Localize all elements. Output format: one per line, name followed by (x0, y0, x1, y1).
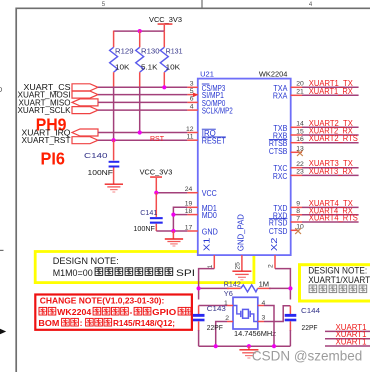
svg-text:MD0: MD0 (202, 211, 217, 220)
svg-text:VCC_3V3: VCC_3V3 (140, 168, 173, 177)
right pin names (269, 84, 288, 236)
svg-text:1M: 1M (259, 280, 270, 289)
svg-text:11: 11 (186, 134, 193, 141)
svg-text:SCLK/MP2: SCLK/MP2 (202, 107, 233, 116)
svg-text:CSDN @szembed: CSDN @szembed (252, 348, 362, 363)
svg-text:12: 12 (186, 126, 194, 133)
svg-text:BOM: BOM (38, 318, 59, 328)
svg-text:R145/R148/Q12;: R145/R148/Q12; (113, 318, 175, 328)
border arrow marker (0, 329, 6, 334)
svg-text:GND_PAD: GND_PAD (237, 214, 246, 251)
bottom pin stub X1 (213, 255, 215, 269)
svg-text:M1M0=00: M1M0=00 (53, 268, 93, 278)
no-connect X pin13 (297, 150, 303, 156)
wire XUART2_RX (302, 134, 359, 136)
node junction GND wire (171, 229, 175, 233)
svg-text:XUART_RST: XUART_RST (22, 135, 71, 145)
crystal pin2 stub (227, 321, 233, 323)
svg-text:6: 6 (190, 96, 194, 103)
svg-text:WK2204: WK2204 (57, 307, 91, 317)
right pin stubs (291, 87, 302, 230)
wire XUART_SCLK (98, 109, 187, 111)
svg-text:100NF: 100NF (88, 168, 114, 177)
node junction rail right (272, 344, 276, 348)
wire XUART3_RX (302, 174, 359, 176)
resistor R131 (160, 31, 182, 87)
node junction RST/R129/C140 (112, 138, 116, 142)
svg-text:RESET: RESET (202, 137, 226, 146)
resistor R142 (199, 280, 291, 292)
svg-text:VCC_3V3: VCC_3V3 (149, 15, 182, 24)
left pin numbers (185, 81, 194, 232)
wire XUART1 c (325, 345, 370, 347)
svg-text::: : (80, 318, 83, 328)
svg-text:5: 5 (190, 88, 194, 95)
svg-text:GND: GND (202, 228, 218, 237)
wire XUART4_RX (302, 214, 359, 216)
crystal pin3 stub (258, 321, 264, 323)
svg-text:RXC: RXC (273, 172, 288, 181)
crystal Y6 (224, 289, 277, 338)
port XUART_IRQ (22, 127, 99, 137)
svg-text:C140: C140 (84, 151, 108, 160)
svg-text:RXA: RXA (273, 92, 288, 101)
wire top rail (114, 30, 165, 32)
svg-text:C143: C143 (207, 304, 226, 313)
svg-text:X2: X2 (270, 237, 279, 251)
svg-text:3: 3 (262, 315, 266, 322)
wire X2 to crystal column (275, 269, 290, 300)
svg-text:10K: 10K (166, 63, 181, 72)
svg-text:R129: R129 (115, 47, 134, 56)
svg-text:CTSB: CTSB (269, 147, 288, 156)
wire XUART3_TX (302, 167, 359, 169)
svg-text:7: 7 (296, 215, 300, 222)
svg-text:100NF: 100NF (133, 224, 155, 233)
svg-text:XUART1: XUART1 (336, 338, 367, 347)
svg-text:14.7456MHz: 14.7456MHz (234, 329, 276, 338)
svg-text:22PF: 22PF (302, 323, 319, 332)
svg-text:C144: C144 (301, 306, 320, 315)
capacitor C144 (285, 306, 320, 346)
svg-text:5.1K: 5.1K (141, 63, 158, 72)
svg-text:21: 21 (296, 89, 304, 96)
svg-text:XUART2_RTS: XUART2_RTS (309, 134, 358, 143)
right pin numbers (296, 81, 304, 231)
node junction R142 right (288, 286, 292, 290)
bottom pin names X1 GND_PAD X2 (203, 214, 280, 251)
svg-text:X1: X1 (203, 237, 212, 251)
design note box left (35, 252, 254, 283)
svg-text:Y6: Y6 (224, 289, 233, 298)
svg-text:17: 17 (185, 224, 193, 231)
svg-text:XUART4_RTS: XUART4_RTS (309, 214, 358, 223)
ground below GND wire (165, 231, 183, 246)
wire XUART1 b (325, 338, 370, 340)
svg-text:U21: U21 (200, 69, 214, 78)
power VCC_3V3 top (149, 15, 182, 31)
node junction R142 left (197, 286, 201, 290)
svg-text:XUART_SCLK: XUART_SCLK (18, 105, 71, 115)
wire X1 to crystal column (199, 269, 215, 300)
svg-text:XUART3_RX: XUART3_RX (309, 167, 354, 176)
svg-text:DESIGN NOTE:: DESIGN NOTE: (53, 256, 119, 266)
svg-text:VCC: VCC (202, 189, 217, 198)
svg-text:R131: R131 (166, 47, 183, 56)
svg-text:14: 14 (296, 121, 304, 128)
overbars left names (202, 84, 226, 137)
no-connect X pin10 (295, 228, 301, 234)
svg-text:R142: R142 (224, 280, 241, 289)
crystal pin1 stub (227, 305, 233, 307)
svg-text:10: 10 (296, 224, 304, 231)
wire XUART4_TX (302, 206, 359, 208)
ground below rail (239, 346, 258, 358)
svg-text:RST: RST (150, 134, 164, 143)
left pin stubs (187, 87, 197, 231)
svg-text:19: 19 (185, 201, 193, 208)
svg-text:3: 3 (190, 81, 194, 88)
svg-text:13: 13 (296, 146, 304, 153)
wire XUART1_RX (302, 94, 359, 96)
capacitor C141 (133, 193, 162, 233)
port XUART_CS (24, 82, 99, 92)
svg-text:PI6: PI6 (41, 149, 65, 169)
wire XUART1 a (325, 330, 370, 332)
wire R130 to IRQ net (139, 87, 141, 132)
svg-text:GPIO: GPIO (152, 307, 176, 317)
node junction CS/R131 (162, 85, 166, 89)
wire XUART1_TX (302, 86, 359, 88)
svg-text:CTSD: CTSD (269, 227, 288, 236)
resistor R130 (136, 31, 160, 88)
wire XUART_RST (98, 139, 187, 141)
bottom pin stub GND_PAD (241, 255, 243, 271)
svg-text:2: 2 (268, 264, 275, 268)
svg-text:XUART1/XUART: XUART1/XUART (308, 275, 370, 285)
design note box right (300, 265, 370, 301)
wire crystal pin2 to ground rail (216, 322, 227, 347)
change note box (35, 295, 192, 330)
bottom pin stub X2 (274, 255, 276, 269)
ERC marker pin5 (193, 93, 198, 98)
node junction IRQ/R130 (138, 130, 142, 134)
port XUART_MOSI (18, 90, 99, 100)
wire pin24 VCC (156, 192, 187, 194)
svg-text:8: 8 (296, 208, 300, 215)
node junction top (138, 29, 142, 33)
svg-text:WK2204: WK2204 (259, 69, 288, 78)
svg-text:25: 25 (235, 262, 242, 270)
node junction MD0 (171, 213, 175, 217)
wire XUART_IRQ (98, 132, 187, 134)
wire crystal pin4 to ground rail (264, 306, 274, 347)
svg-text:22PF: 22PF (207, 323, 224, 332)
wire crystal ground rail (199, 345, 291, 347)
crystal pin4 stub (258, 305, 264, 307)
svg-text:C141: C141 (140, 208, 157, 217)
svg-text:18: 18 (185, 208, 193, 215)
svg-text:10K: 10K (115, 63, 130, 72)
node junction VCC/C141 (154, 191, 158, 195)
node junction rail left (214, 344, 218, 348)
port XUART_SCLK (18, 105, 99, 115)
wire pin18 (173, 214, 187, 216)
wire crystal pin3 to X2 column (264, 306, 290, 322)
node junction rail center (247, 344, 251, 348)
capacitor C140 (84, 140, 119, 184)
svg-text:4: 4 (190, 103, 194, 110)
wire XUART_CS (98, 86, 187, 88)
svg-text:XUART1_RX: XUART1_RX (309, 87, 354, 96)
ground below C140 (105, 184, 123, 192)
port XUART_MISO (19, 97, 99, 107)
svg-text:24: 24 (185, 186, 193, 193)
wire XUART4_RTS (302, 221, 359, 223)
svg-text:SPI: SPI (176, 268, 195, 278)
wire pin17 GND (156, 230, 187, 232)
capacitor C143 (193, 304, 226, 346)
wire XUART2_RTS (302, 142, 359, 144)
port XUART_RST (22, 135, 99, 145)
svg-text:20: 20 (296, 81, 304, 88)
wire XUART_MISO (98, 101, 187, 103)
IC U21 WK2204 body (198, 79, 291, 256)
wire crystal pin1 (199, 305, 227, 307)
wire XUART_MOSI (98, 94, 187, 96)
ground below pin 25 (232, 271, 251, 280)
left pin names (202, 84, 233, 237)
wire MD1/MD0 tie (173, 207, 187, 231)
svg-text:CHANGE NOTE(V1.0,23-01-30):: CHANGE NOTE(V1.0,23-01-30): (40, 295, 165, 305)
wire R129 to RST net (113, 87, 115, 140)
power VCC_3V3 mid (140, 168, 173, 193)
svg-text:-: - (130, 307, 133, 317)
wire XUART2_TX (302, 126, 359, 128)
svg-text:R130: R130 (141, 47, 160, 56)
resistor R129 (110, 31, 134, 88)
overbars right names (269, 139, 288, 218)
svg-text:9: 9 (296, 201, 300, 208)
